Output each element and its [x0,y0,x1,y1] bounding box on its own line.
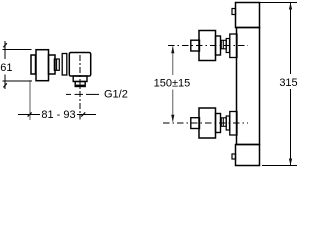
right view bottom handle: flange [230,112,237,136]
dim 61: oblique tick top [3,43,6,47]
dim 81-93: oblique tick right [81,112,85,116]
dim 61: vertical dimension line [4,41,6,59]
dim 315: bottom extension line [262,165,297,167]
left view: outlet step 1 [73,76,87,82]
right view top handle: end cap [191,40,200,51]
right view top handle: connector inner detail [222,40,224,49]
right view: bottom valve centerline [163,122,248,124]
left view: outlet vertical centerline [79,55,81,120]
right view bottom handle: piece [226,116,229,130]
dim 81-93: left extension line [29,80,31,120]
right view top handle: connector nut [221,40,226,49]
right view top handle: flange [230,34,237,58]
dim 61: oblique tick bottom [3,83,6,87]
dim 315: top extension line [260,2,298,4]
right view top handle: piece [226,39,229,53]
left view: handle end cap [31,55,36,74]
svg-text:150±15: 150±15 [154,78,191,90]
right view: body column [237,28,260,145]
right view: top valve centerline [168,45,248,47]
right view bottom handle: adapter [216,114,221,133]
right view bottom handle: end cap [191,118,200,129]
svg-text:81 - 93: 81 - 93 [41,109,75,121]
right view: top cap [236,3,260,28]
dim 315: dimension line [290,3,292,75]
dim 315: top arrowhead [289,3,292,10]
dim 81-93: oblique tick left [28,112,32,116]
left view: outlet nut bottom edge [75,85,85,87]
dim 61: bottom extension line [3,80,33,82]
left view: flange [62,54,67,76]
right view top handle: knob [199,31,216,61]
left view: handle knob [36,50,49,81]
right view bottom handle: connector inner detail [222,118,224,127]
right view bottom handle: knob [199,108,216,138]
dim 315: bottom arrowhead [289,159,292,166]
left view: connector nut [54,59,59,70]
right view bottom handle: connector nut [221,118,226,127]
dim 61: top extension line [3,49,32,51]
right view: bottom notch [232,154,236,159]
right view top handle: adapter [216,36,221,55]
svg-text:G1/2: G1/2 [104,89,128,101]
svg-text:315: 315 [279,77,297,89]
dim 150±15: bottom arrowhead [171,115,174,122]
left view: connector inner detail [56,59,58,70]
left view: outlet nut [75,82,85,87]
right view: bottom cap [236,145,260,166]
svg-text:61: 61 [0,62,12,74]
left view: handle adapter [49,55,56,74]
dim 81-93: dimension line [18,114,40,116]
left view: valve body [69,53,90,77]
dim 150±15: dimension line [172,46,174,75]
right view: top notch [232,9,236,15]
left view: outlet horizontal centerline [66,93,71,95]
dim 150±15: top arrowhead [171,46,174,53]
